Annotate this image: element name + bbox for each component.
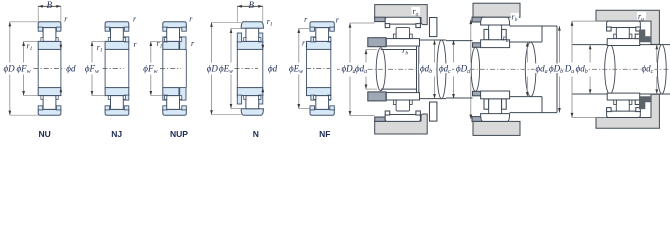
svg-text:ϕd: ϕd xyxy=(66,64,76,74)
svg-text:NJ: NJ xyxy=(111,129,122,139)
svg-text:B: B xyxy=(249,0,255,10)
svg-text:N: N xyxy=(253,129,259,139)
svg-text:B: B xyxy=(47,0,53,10)
svg-text:ϕD: ϕD xyxy=(4,64,16,74)
svg-text:NU: NU xyxy=(39,129,51,139)
svg-text:ϕD: ϕD xyxy=(207,64,219,74)
svg-text:NUP: NUP xyxy=(170,129,188,139)
svg-text:NF: NF xyxy=(319,129,330,139)
svg-text:ϕd: ϕd xyxy=(268,64,278,74)
